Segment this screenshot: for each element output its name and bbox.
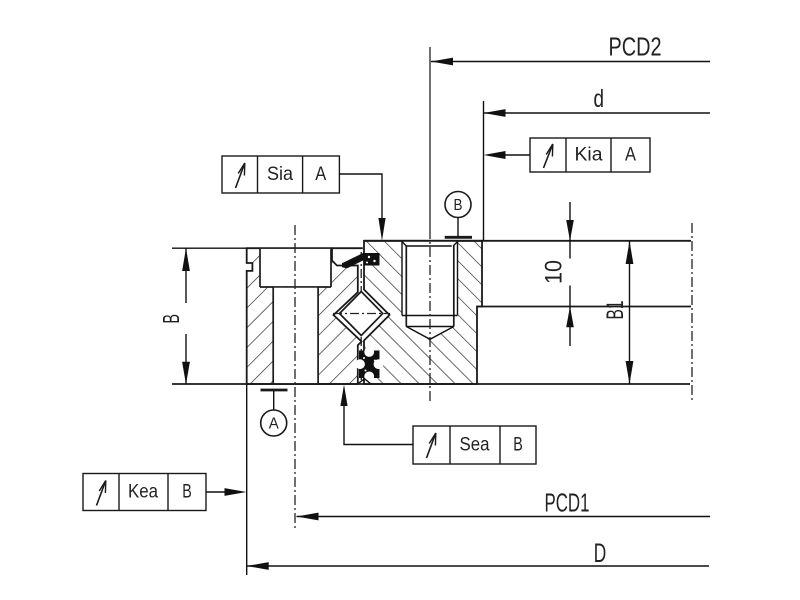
outer ring mounting through hole [273, 287, 318, 383]
dimension B [158, 248, 190, 384]
svg-text:Sia: Sia [267, 163, 293, 185]
datum A symbol [261, 390, 288, 436]
svg-text:B: B [454, 197, 463, 214]
roller (crossed roller cross-section diamond) [340, 292, 383, 336]
dimension D [247, 384, 709, 575]
bearing axis centerline [691, 223, 693, 400]
roller slot vertical centerline [360, 252, 362, 381]
svg-text:B: B [158, 314, 184, 324]
svg-text:B: B [513, 434, 523, 456]
bore step edge [477, 306, 691, 308]
dimension 10 [541, 202, 574, 346]
svg-text:d: d [593, 85, 604, 113]
roller horizontal centerline [333, 313, 390, 315]
feature control frame Sea B [340, 385, 536, 464]
top seal (lip seal, solid black) [342, 253, 380, 269]
bottom seal groove chamfer [358, 379, 372, 384]
B top extension line [172, 247, 247, 249]
feature control frame Sia A [222, 156, 386, 241]
svg-text:D: D [594, 538, 607, 568]
threaded hole centerline + PCD2 extension line [429, 47, 431, 229]
svg-text:A: A [625, 144, 636, 166]
outer ring mounting counterbore [260, 249, 331, 287]
datum B symbol [445, 192, 472, 238]
dimension PCD2 [431, 34, 710, 66]
dimension d [484, 85, 711, 241]
part bottom edge + B extension [172, 383, 690, 385]
svg-text:A: A [315, 163, 326, 185]
inner ring hatched section [364, 241, 482, 384]
svg-text:A: A [269, 416, 280, 433]
bottom seal (X cross-section seal) [355, 347, 383, 381]
mounting hole centerline / PCD1 extension [294, 225, 296, 531]
svg-text:B: B [182, 481, 192, 503]
outer ring hatched section [247, 248, 362, 384]
feature control frame Kea B [83, 474, 247, 511]
svg-text:10: 10 [541, 260, 568, 284]
dimension PCD1 [297, 488, 711, 521]
svg-text:Kia: Kia [575, 144, 603, 166]
dimension B1 [602, 241, 634, 384]
outer ring seal groove top edge [332, 247, 363, 249]
svg-text:Kea: Kea [128, 481, 158, 503]
svg-text:Sea: Sea [460, 434, 490, 456]
threaded hole (tapped blind hole) [402, 241, 458, 339]
feature control frame Kia A [484, 138, 651, 172]
inner ring top edge (to axis) [365, 240, 692, 242]
svg-text:B1: B1 [602, 301, 629, 320]
svg-text:PCD1: PCD1 [545, 488, 590, 518]
svg-text:PCD2: PCD2 [609, 34, 662, 62]
